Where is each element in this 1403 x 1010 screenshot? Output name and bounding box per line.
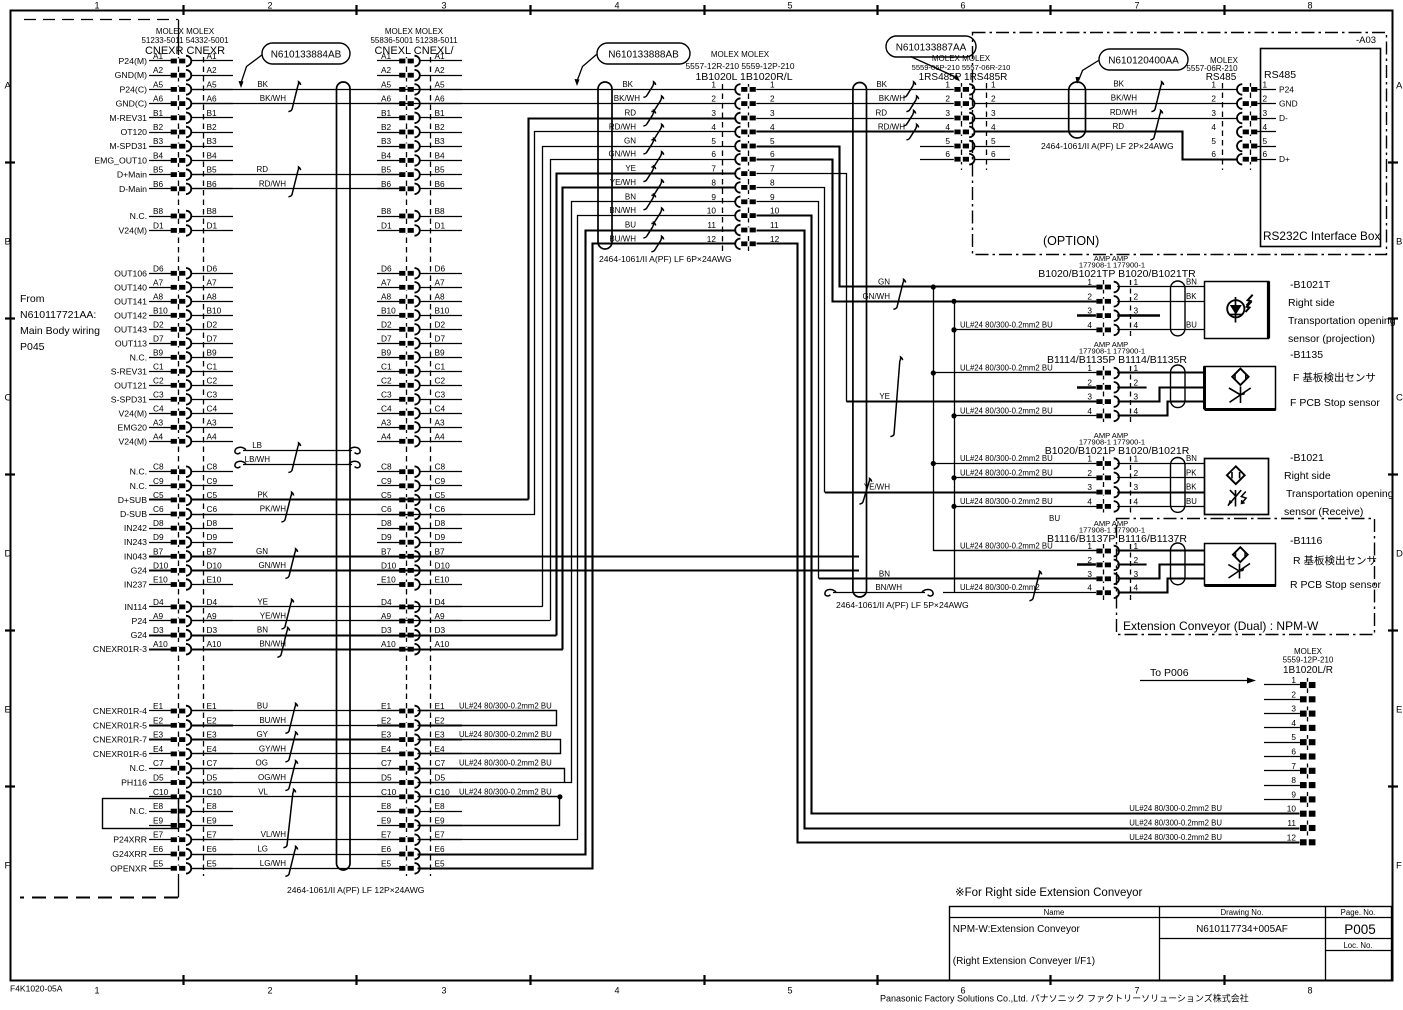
svg-text:C2: C2 [381, 375, 392, 385]
svg-text:UL#24 80/300-0.2mm2 BU: UL#24 80/300-0.2mm2 BU [960, 364, 1053, 373]
svg-text:C3: C3 [381, 389, 392, 399]
connector CNEXR pin C3 (S-SPD31) [111, 389, 233, 404]
wire B1021TP pin2 feed (GN/WH) [954, 300, 1096, 302]
svg-text:E9: E9 [153, 815, 164, 825]
svg-text:D7: D7 [435, 333, 446, 343]
svg-text:D1: D1 [381, 220, 392, 230]
connector 1RS485 pin 4 [945, 122, 996, 137]
connector 1B1020L/R header [1283, 647, 1334, 676]
main body boundary (bottom dashed) [178, 876, 180, 898]
connector B1116/B1137P-R pin 3 [1087, 569, 1138, 584]
svg-text:A10: A10 [435, 639, 450, 649]
wire B1135P pin1 feed [933, 372, 1096, 374]
svg-text:2: 2 [1211, 94, 1216, 104]
svg-text:GND(M): GND(M) [115, 70, 147, 80]
svg-text:D8: D8 [153, 518, 164, 528]
wire riser x535 from row C6 to 1B1020 pin 4 [535, 132, 736, 515]
svg-text:A6: A6 [435, 94, 446, 104]
wire 1B1020 pin3 to 1RS485P pin3 (RD) [756, 118, 954, 120]
connector CNEXL pin C4 [377, 403, 462, 418]
svg-text:BK: BK [876, 80, 887, 89]
connector CNEXL header [370, 27, 458, 57]
svg-text:1: 1 [945, 79, 950, 89]
svg-text:B6: B6 [153, 179, 164, 189]
connector CNEXL pin C8 [377, 462, 462, 477]
svg-text:4: 4 [770, 122, 775, 132]
svg-text:C: C [1396, 393, 1403, 404]
svg-text:9: 9 [770, 192, 775, 202]
connector CNEXR pin E1 (CNEXR01R-4) [93, 701, 233, 716]
svg-text:E6: E6 [153, 844, 164, 854]
svg-text:C3: C3 [153, 389, 164, 399]
wire 1B1020 pin6 drop to GN/WH feed [757, 160, 955, 302]
wire 1B1020 pin8 drop to YE/WH feed [757, 188, 825, 493]
connector 1B1020L/R pin 5 [1264, 732, 1315, 745]
connector 1RS485 pin 3 [945, 108, 996, 123]
svg-text:9: 9 [1291, 789, 1296, 799]
svg-text:LG: LG [257, 845, 268, 854]
svg-text:D9: D9 [435, 532, 446, 542]
wire B1021P pin2 feed [954, 477, 1096, 479]
connector CNEXR pin D6 (OUT106) [114, 263, 233, 278]
svg-text:N.C.: N.C. [130, 211, 147, 221]
svg-text:1: 1 [1211, 79, 1216, 89]
svg-text:F PCB Stop sensor: F PCB Stop sensor [1290, 397, 1380, 409]
svg-text:R 基板検出センサ: R 基板検出センサ [1293, 554, 1377, 567]
svg-text:D4: D4 [381, 597, 392, 607]
wire pair BK/BKWH (A5,A6) to 1B1020 pins1,2 [191, 80, 735, 112]
connector CNEXL pin B10 [377, 305, 462, 320]
connector B1020/B1021TP-TR housing dashed lines [1103, 280, 1105, 338]
connector 1B1020 pin 6 [711, 149, 775, 164]
connector CNEXL pin B1 [377, 108, 462, 123]
svg-text:E5: E5 [153, 858, 164, 868]
svg-text:4: 4 [1134, 320, 1139, 330]
svg-text:D7: D7 [381, 333, 392, 343]
svg-text:1: 1 [711, 79, 716, 89]
svg-text:BK: BK [622, 80, 633, 89]
svg-text:P045: P045 [20, 341, 45, 353]
svg-text:B8: B8 [381, 206, 392, 216]
svg-text:D+Main: D+Main [117, 170, 147, 180]
connector 1B1020L/R pin 6 [1264, 747, 1315, 760]
connector CNEXL pin D6 [377, 263, 462, 278]
svg-text:3: 3 [441, 1, 446, 11]
svg-text:GY/WH: GY/WH [259, 744, 286, 753]
connector CNEXR pin B7 (IN043) [124, 546, 233, 561]
svg-text:D: D [1396, 549, 1403, 560]
svg-text:C10: C10 [435, 787, 451, 797]
svg-text:2: 2 [945, 94, 950, 104]
wire pair LG/LGWH (E6,E5) [191, 845, 399, 877]
svg-text:C9: C9 [381, 476, 392, 486]
svg-text:PH116: PH116 [121, 778, 147, 788]
svg-text:LB/WH: LB/WH [245, 455, 271, 464]
svg-text:2: 2 [267, 986, 272, 996]
svg-text:BN/WH: BN/WH [609, 206, 636, 215]
svg-text:E1: E1 [153, 701, 164, 711]
svg-text:B3: B3 [153, 136, 164, 146]
connector CNEXL pin A9 [377, 611, 462, 626]
svg-text:BU: BU [1186, 320, 1197, 329]
svg-text:D7: D7 [207, 333, 218, 343]
wire riser x562.9 from row A10 to 1B1020 pin 8 [563, 188, 736, 650]
wire 1B1020 pin2 to 1RS485P pin2 (BK/WH) [756, 103, 954, 105]
connector B1114/B1135P-R pin 1 [960, 363, 1139, 378]
svg-text:N.C.: N.C. [130, 352, 147, 362]
svg-text:A6: A6 [381, 94, 392, 104]
svg-text:C10: C10 [381, 787, 397, 797]
svg-text:C1: C1 [153, 361, 164, 371]
svg-text:11: 11 [1287, 818, 1296, 828]
svg-text:B8: B8 [435, 206, 446, 216]
svg-text:A9: A9 [381, 611, 392, 621]
svg-text:B1114/B1135P B1114/B1135R: B1114/B1135P B1114/B1135R [1047, 354, 1187, 366]
svg-text:RD: RD [624, 109, 636, 118]
svg-text:BN: BN [1186, 278, 1197, 287]
svg-text:1: 1 [1291, 675, 1296, 685]
svg-text:UL#24 80/300-0.2mm2 BU: UL#24 80/300-0.2mm2 BU [1129, 833, 1222, 842]
svg-text:YE/WH: YE/WH [610, 178, 636, 187]
connector CNEXR pin A4 (V24(M)) [119, 431, 233, 446]
wire B1137R pin2 stub [1117, 563, 1146, 565]
svg-text:2: 2 [1087, 377, 1092, 387]
svg-text:C4: C4 [381, 403, 392, 413]
svg-text:OG/WH: OG/WH [258, 773, 286, 782]
svg-text:A2: A2 [435, 65, 446, 75]
svg-text:C9: C9 [435, 476, 446, 486]
svg-text:CNEXR01R-6: CNEXR01R-6 [93, 749, 147, 759]
svg-text:2464-1061/II A(PF) LF 5P×24AWG: 2464-1061/II A(PF) LF 5P×24AWG [836, 600, 969, 610]
wire 1B1020 pin9 drop to BN feed [757, 202, 819, 579]
svg-text:6: 6 [945, 149, 950, 159]
svg-text:OUT140: OUT140 [114, 282, 147, 292]
connector CNEXL pin B3 [377, 136, 462, 151]
svg-text:C8: C8 [153, 462, 164, 472]
svg-text:N610117721AA:: N610117721AA: [20, 309, 96, 321]
svg-text:10: 10 [770, 206, 780, 216]
svg-text:GN/WH: GN/WH [862, 292, 890, 301]
svg-text:A2: A2 [381, 65, 392, 75]
connector CNEXR pin D9 (IN243) [124, 532, 233, 547]
svg-text:D9: D9 [153, 532, 164, 542]
svg-text:OUT142: OUT142 [114, 310, 147, 320]
svg-text:IN043: IN043 [124, 551, 147, 561]
svg-text:4: 4 [1263, 122, 1268, 132]
svg-text:6: 6 [1291, 747, 1296, 757]
svg-text:D6: D6 [381, 263, 392, 273]
wire pair BN/BNWH (D3,A10) to risers [191, 626, 563, 658]
connector CNEXR pin C2 (OUT121) [114, 375, 233, 390]
svg-text:B4: B4 [435, 150, 446, 160]
svg-text:3: 3 [1211, 108, 1216, 118]
sensor symbol B1116 [1233, 547, 1248, 562]
svg-text:E8: E8 [207, 801, 218, 811]
svg-text:B9: B9 [381, 347, 392, 357]
wire 1RS485R pin1 to RS485 pin1 (BK) [975, 89, 1238, 91]
svg-text:IN237: IN237 [124, 580, 147, 590]
svg-text:B7: B7 [381, 546, 392, 556]
wire B1137R pin4 jog into box [1118, 579, 1205, 593]
connector B1114/B1135P-R header [1079, 340, 1145, 356]
connector 1B1020 pin 10 [707, 206, 780, 221]
svg-text:E: E [5, 705, 11, 716]
svg-text:3: 3 [991, 108, 996, 118]
OPTION boundary box [973, 33, 1387, 255]
wire B1135P pin4 feed [954, 415, 1096, 417]
svg-text:UL#24 80/300-0.2mm2 BU: UL#24 80/300-0.2mm2 BU [960, 320, 1053, 329]
svg-text:D3: D3 [153, 625, 164, 635]
svg-text:4: 4 [1134, 406, 1139, 416]
cable sheath oval N610133888AB [598, 82, 612, 249]
svg-text:8: 8 [1291, 775, 1296, 785]
svg-text:E6: E6 [207, 844, 218, 854]
svg-text:E2: E2 [153, 715, 164, 725]
svg-text:UL#24 80/300-0.2mm2 BU: UL#24 80/300-0.2mm2 BU [960, 406, 1053, 415]
svg-text:3: 3 [1087, 392, 1092, 402]
connector 1RS485 pin 1 [945, 79, 996, 94]
svg-text:A8: A8 [153, 291, 164, 301]
svg-text:BU: BU [1186, 497, 1197, 506]
wire B1021TR pin2 to sensor [1117, 301, 1204, 303]
svg-text:B1116/B1137P B1116/B1137R: B1116/B1137P B1116/B1137R [1047, 533, 1187, 545]
connector 1B1020L/R pin 10 [1129, 804, 1315, 817]
svg-text:Name: Name [1044, 908, 1065, 917]
svg-text:2: 2 [267, 1, 272, 11]
svg-text:D: D [5, 549, 12, 560]
svg-text:E2: E2 [381, 715, 392, 725]
svg-text:N.C.: N.C. [130, 763, 147, 773]
svg-text:D10: D10 [435, 560, 451, 570]
svg-text:OUT106: OUT106 [114, 268, 147, 278]
svg-text:C8: C8 [207, 462, 218, 472]
svg-text:BU/WH: BU/WH [609, 234, 636, 243]
svg-text:OUT121: OUT121 [114, 380, 147, 390]
wire pair OG/OGWH (C7,D5) [191, 759, 399, 791]
connector CNEXL pin D2 [377, 319, 462, 334]
svg-text:RD: RD [1112, 122, 1124, 131]
svg-text:A7: A7 [153, 277, 164, 287]
svg-text:D+SUB: D+SUB [118, 495, 147, 505]
connector RS485 pin 2 GND [1211, 94, 1297, 109]
svg-text:A7: A7 [207, 277, 218, 287]
svg-text:1: 1 [1087, 363, 1092, 373]
svg-text:Transportation opening: Transportation opening [1286, 488, 1394, 500]
connector CNEXR pin D5 (PH116) [121, 773, 233, 788]
svg-text:D+: D+ [1279, 154, 1290, 164]
connector CNEXR pin C10 (n/a) [149, 787, 233, 802]
svg-text:N610133888AB: N610133888AB [608, 50, 679, 61]
svg-text:C9: C9 [207, 476, 218, 486]
svg-text:E10: E10 [381, 575, 396, 585]
wire 1RS485R pin2 to RS485 pin2 (BK/WH) [975, 103, 1238, 105]
svg-text:YE: YE [625, 164, 636, 173]
svg-text:D-SUB: D-SUB [120, 509, 147, 519]
svg-text:C4: C4 [153, 403, 164, 413]
connector CNEXR pin C5 (D+SUB) [118, 490, 233, 505]
connector CNEXR pin E8 (N.C.) [130, 801, 233, 816]
svg-text:1: 1 [991, 79, 996, 89]
connector CNEXL pin C10 [377, 787, 462, 802]
svg-text:5: 5 [787, 986, 792, 996]
svg-text:EMG20: EMG20 [118, 422, 148, 432]
connector CNEXR pin B4 (EMG_OUT10) [94, 150, 233, 165]
connector B1116/B1137P-R pin 1 [1087, 541, 1138, 556]
svg-text:B9: B9 [207, 347, 218, 357]
svg-text:2: 2 [1087, 468, 1092, 478]
svg-text:8: 8 [770, 177, 775, 187]
svg-text:A6: A6 [153, 94, 164, 104]
svg-text:A3: A3 [381, 417, 392, 427]
svg-text:B8: B8 [207, 206, 218, 216]
wire B1137R pin1 to sensor [1117, 549, 1204, 551]
svg-text:E7: E7 [207, 830, 218, 840]
connector B1020/B1021TP-TR header [1079, 254, 1145, 270]
svg-text:D-: D- [1279, 113, 1288, 123]
connector CNEXL pin E2 [377, 715, 462, 730]
svg-text:B5: B5 [381, 165, 392, 175]
svg-text:D4: D4 [435, 597, 446, 607]
svg-text:OUT113: OUT113 [115, 338, 147, 348]
svg-text:C5: C5 [381, 490, 392, 500]
connector CNEXL pin D10 [377, 560, 462, 575]
connector 1B1020 pin 8 [711, 177, 775, 192]
svg-text:3: 3 [1263, 108, 1268, 118]
connector CNEXL pin B9 [377, 347, 462, 362]
svg-text:C10: C10 [153, 787, 169, 797]
connector CNEXL pin D9 [377, 532, 462, 547]
svg-text:B5: B5 [435, 165, 446, 175]
svg-text:BN: BN [1186, 454, 1197, 463]
svg-text:B5: B5 [207, 165, 218, 175]
svg-text:N.C.: N.C. [130, 467, 147, 477]
connector B1116/B1137P-R header [1079, 519, 1145, 535]
svg-text:A5: A5 [153, 79, 164, 89]
wire B1021R pin4 to sensor [1117, 506, 1204, 508]
svg-text:6: 6 [960, 1, 965, 11]
svg-text:G24XRR: G24XRR [112, 849, 147, 859]
connector CNEXR pin B3 (M-SPD31) [109, 136, 233, 151]
connector CNEXR pin A7 (OUT140) [114, 277, 233, 292]
connector CNEXL pin B7 [377, 546, 462, 561]
svg-text:2: 2 [1087, 291, 1092, 301]
connector CNEXR pin B2 (OT120) [120, 122, 233, 137]
svg-text:※For Right side Extension Conv: ※For Right side Extension Conveyor [955, 887, 1143, 899]
svg-text:7: 7 [1291, 761, 1296, 771]
svg-text:C8: C8 [381, 462, 392, 472]
svg-text:C1: C1 [435, 361, 446, 371]
svg-text:B4: B4 [381, 150, 392, 160]
svg-text:sensor (projection): sensor (projection) [1288, 333, 1375, 345]
svg-text:D10: D10 [207, 560, 223, 570]
wire riser x592.8 from row E5 to 1B1020 pin 12 [418, 244, 736, 869]
svg-text:1: 1 [1087, 454, 1092, 464]
svg-text:UL#24 80/300-0.2mm2 BU: UL#24 80/300-0.2mm2 BU [960, 454, 1053, 463]
svg-text:7: 7 [711, 164, 716, 174]
svg-text:4: 4 [945, 122, 950, 132]
svg-text:B7: B7 [153, 546, 164, 556]
svg-text:B6: B6 [435, 179, 446, 189]
connector 1RS485 pin 6 [920, 149, 1010, 164]
svg-text:E8: E8 [153, 801, 164, 811]
svg-text:D5: D5 [435, 773, 446, 783]
svg-text:RD: RD [256, 165, 268, 174]
connector 1B1020L/1B1020R-L header [686, 50, 795, 83]
svg-text:Right side: Right side [1284, 470, 1331, 482]
wire B1135R pin2 stub [1117, 386, 1146, 388]
svg-text:8: 8 [711, 177, 716, 187]
svg-text:GN: GN [624, 137, 636, 146]
svg-text:B1: B1 [435, 108, 446, 118]
wire B1021TR pin1 to sensor [1117, 286, 1204, 288]
connector CNEXR pin D1 (V24(M)) [119, 220, 233, 235]
svg-text:E4: E4 [153, 744, 164, 754]
svg-text:D9: D9 [381, 532, 392, 542]
svg-text:2: 2 [770, 94, 775, 104]
svg-text:E7: E7 [153, 830, 164, 840]
connector CNEXR pin D10 (G24) [131, 560, 233, 575]
svg-text:A3: A3 [435, 417, 446, 427]
connector CNEXR pin E5 (OPENXR) [110, 858, 233, 873]
wire riser x571.4 from row D5 to 1B1020 pin 9 [418, 202, 736, 783]
svg-text:Drawing No.: Drawing No. [1221, 908, 1264, 917]
svg-text:C2: C2 [207, 375, 218, 385]
svg-text:GND(C): GND(C) [116, 99, 147, 109]
svg-text:B1: B1 [153, 108, 164, 118]
svg-text:D-Main: D-Main [119, 184, 147, 194]
svg-text:D3: D3 [381, 625, 392, 635]
wire riser x556.4 from row D3 to 1B1020 pin 7 [557, 174, 736, 636]
svg-text:3: 3 [1087, 482, 1092, 492]
connector CNEXR pin D2 (OUT143) [114, 319, 233, 334]
svg-text:V24(M): V24(M) [119, 408, 148, 418]
svg-text:4: 4 [1211, 122, 1216, 132]
connector 1B1020 pin 3 [711, 108, 775, 123]
svg-text:2: 2 [1291, 689, 1296, 699]
svg-text:R PCB Stop sensor: R PCB Stop sensor [1290, 579, 1382, 591]
svg-text:CNEXR01R-3: CNEXR01R-3 [93, 644, 147, 654]
connector 1B1020 pin 4 [711, 122, 775, 137]
connector 1B1020L/R pin 1 [1264, 675, 1315, 688]
svg-text:10: 10 [1287, 804, 1297, 814]
cable oval at B1021 [1171, 458, 1186, 513]
sensor box B1021 [1205, 459, 1269, 515]
wire 1B1020 pin11 drop to bottom row11 [757, 231, 1300, 829]
svg-text:E3: E3 [435, 730, 446, 740]
svg-text:2: 2 [1134, 377, 1139, 387]
svg-text:12: 12 [770, 234, 780, 244]
svg-text:D1: D1 [435, 220, 446, 230]
svg-text:A8: A8 [207, 291, 218, 301]
svg-text:E1: E1 [435, 701, 446, 711]
connector CNEXR pin A9 (P24) [132, 611, 233, 626]
svg-text:D8: D8 [207, 518, 218, 528]
svg-text:1: 1 [1134, 277, 1139, 287]
connector CNEXL pin D7 [377, 333, 462, 348]
svg-text:UL#24 80/300-0.2mm2 BU: UL#24 80/300-0.2mm2 BU [1129, 804, 1222, 813]
svg-text:GND: GND [1279, 99, 1298, 109]
svg-text:N610120400AA: N610120400AA [1108, 56, 1179, 67]
svg-text:OUT141: OUT141 [114, 296, 147, 306]
svg-text:D9: D9 [207, 532, 218, 542]
svg-text:Extension Conveyor (Dual) : NP: Extension Conveyor (Dual) : NPM-W [1123, 619, 1319, 633]
wire 1B1020 pin5 drop to GN feed [757, 147, 934, 287]
svg-text:B6: B6 [207, 179, 218, 189]
cable sheath oval N610133884AB [337, 82, 351, 870]
svg-text:3: 3 [1134, 569, 1139, 579]
connector CNEXL pin D4 [377, 597, 462, 612]
wire pair RD/RDWH (B5,B6) [191, 165, 399, 197]
